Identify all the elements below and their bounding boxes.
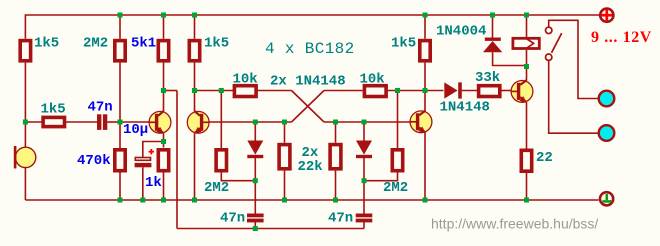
svg-text:2M2: 2M2 (383, 180, 408, 196)
wire 22kb top lead (335, 122, 337, 143)
node Q1 emitter junction (161, 139, 166, 144)
terminal plus (600, 9, 613, 22)
wire 10u top L (143, 142, 164, 158)
svg-text:10µ: 10µ (123, 122, 148, 138)
resistor 2M2 c (392, 150, 402, 171)
svg-text:1k5: 1k5 (204, 36, 229, 52)
diode D1 1N4148 down (247, 141, 263, 159)
wire 2M2b top lead (220, 91, 222, 149)
wire riser 2M2a (119, 15, 121, 39)
capacitor 47n a (97, 114, 107, 130)
resistor 22k b (330, 145, 341, 169)
wire 10u bottom (142, 167, 144, 200)
wire diagonal lower-left to upper-right (292, 91, 325, 123)
plus sign of 10u (149, 149, 154, 154)
wire 5k1 bottom (163, 63, 165, 91)
wire Q2 emitter (194, 133, 196, 200)
svg-text:5k1: 5k1 (131, 36, 156, 52)
wire 22kb bottom (335, 171, 337, 200)
resistor 5k1 (158, 41, 168, 61)
wire D1N4004 bottom lead (493, 52, 527, 65)
wire diagonal upper-left to lower-right (292, 91, 325, 123)
svg-text:9 ... 12V: 9 ... 12V (591, 29, 652, 46)
wire y90 to 10kb (324, 90, 363, 92)
wire Q3 collector (424, 91, 426, 111)
wire relay to Q4 collector (526, 50, 528, 81)
capacitor 47n b (247, 214, 264, 223)
wire rail2 (177, 228, 364, 230)
node relay-Q4 junction (524, 64, 529, 69)
wire Q4 emitter (526, 102, 528, 148)
node rail2 junction (253, 226, 258, 231)
svg-text:2x 1N4148: 2x 1N4148 (270, 74, 346, 90)
resistor 22 (521, 150, 531, 171)
node y180 junctions (253, 178, 258, 183)
wire Q2 base cross (198, 121, 292, 123)
resistor 1k (158, 150, 168, 171)
svg-text:33k: 33k (475, 70, 500, 86)
wire 470k bottom (119, 173, 121, 201)
diode 1N4004 up (483, 38, 502, 53)
wire C47nb bottom (254, 222, 256, 229)
node top rail junctions (118, 13, 123, 18)
transistor Q4 (511, 80, 533, 103)
wire 22 bottom (526, 173, 528, 200)
resistor 33k (479, 86, 500, 97)
node y122 junctions (23, 120, 28, 125)
resistor 2M2 a (115, 41, 125, 61)
wire D2 top lead (363, 122, 365, 141)
wire riser 1k5b (194, 15, 196, 39)
wire Q1 base (120, 121, 156, 123)
svg-text:1N4148: 1N4148 (440, 100, 490, 116)
wire y90 Q2C to 10ka (195, 90, 234, 92)
wire 1k5c bottom (424, 63, 426, 91)
wire riser relay (526, 15, 528, 37)
svg-text:1k5: 1k5 (34, 36, 59, 52)
node rail1 junctions (118, 198, 123, 203)
svg-text:47n: 47n (328, 211, 353, 227)
wire C47nc bottom (363, 222, 365, 229)
capacitor 47n c (356, 214, 373, 223)
wire Q1 collector (163, 91, 165, 113)
wire 22ka bottom (284, 171, 286, 200)
node y90 junctions (161, 88, 166, 93)
wire Q3 base cross (324, 121, 410, 123)
wire rail1 ground (25, 199, 598, 201)
wire riser 1N4004 (492, 15, 494, 38)
resistor 1k5 d horizontal (43, 117, 64, 126)
svg-text:10k: 10k (233, 72, 258, 88)
diode 1N4148 horizontal (444, 82, 462, 98)
microphone MIC (14, 146, 36, 169)
terminal out1 cyan (599, 91, 615, 107)
wire Q3 emitter (424, 133, 426, 201)
resistor 1k5 c (420, 41, 430, 61)
wire 33k to Q4 base (502, 90, 513, 92)
wire switch top to cyan1 (549, 20, 599, 98)
svg-text:10k: 10k (360, 72, 385, 88)
svg-text:22k: 22k (298, 159, 323, 175)
terminal out2 cyan (599, 125, 615, 141)
resistor 22k a (279, 145, 290, 169)
wire 1k5b bottom (194, 63, 196, 91)
relay coil K1 (513, 38, 539, 48)
svg-text:2M2: 2M2 (204, 180, 229, 196)
wire Q1 emitter (163, 133, 165, 147)
wire 2M2c top lead (397, 91, 399, 149)
switch contact S1 (546, 27, 562, 60)
wire top rail V+ (25, 15, 599, 39)
wire D1N4148 to 33k (462, 90, 478, 92)
resistor 470k (115, 150, 125, 171)
svg-text:470k: 470k (77, 153, 111, 169)
wire drop x177 (176, 91, 178, 229)
wire left column through mic (24, 63, 26, 200)
wire Q2 collector (194, 91, 196, 112)
resistor 2M2 b (216, 150, 226, 171)
svg-text:2M2: 2M2 (83, 36, 108, 52)
svg-text:1k: 1k (145, 175, 162, 191)
svg-text:1k5: 1k5 (41, 102, 66, 118)
transistor Q1 (149, 111, 171, 134)
wire D2 bottom to C47nc (363, 158, 365, 214)
resistor 1k5 b (189, 41, 199, 61)
wire D1 top lead (254, 122, 256, 141)
wire 1k5d left lead (25, 121, 41, 123)
wire D1 bottom to C47nb (254, 158, 256, 214)
transistor Q3 (410, 111, 432, 134)
wire node Q1C to drop (164, 90, 178, 92)
resistor 10k b (364, 86, 386, 97)
svg-text:http://www.freeweb.hu/bss/: http://www.freeweb.hu/bss/ (431, 216, 598, 232)
wire C47na to node (107, 121, 120, 123)
diode D2 1N4148 down (356, 141, 372, 159)
wire 1k5d to C47na (65, 121, 97, 123)
wire 2M2c bottom L (364, 173, 398, 181)
resistor 1k5 a (20, 41, 30, 61)
vertical resistors (20, 41, 532, 172)
wire riser 1k5c (424, 15, 426, 39)
wire 2M2b bottom L (221, 173, 255, 181)
capacitor 10u electrolytic (135, 158, 152, 168)
wire 10kb to D1N4148 (387, 90, 444, 92)
resistor 10k a (234, 86, 256, 97)
svg-text:47n: 47n (220, 211, 245, 227)
wire 22ka top lead (284, 122, 286, 143)
wire switch bottom to cyan2 (549, 60, 599, 133)
wire 10ka right (258, 90, 292, 92)
svg-text:4 x BC182: 4 x BC182 (265, 40, 355, 58)
svg-text:1N4004: 1N4004 (436, 24, 486, 40)
terminal ground (600, 192, 613, 205)
wire 2M2a bottom (119, 63, 121, 148)
wire 1k bottom (163, 173, 165, 201)
wire riser 5k1 (163, 15, 165, 39)
svg-text:47n: 47n (88, 100, 113, 116)
transistor Q2 mirrored (187, 111, 209, 134)
svg-text:1k5: 1k5 (391, 36, 416, 52)
svg-text:22: 22 (536, 150, 553, 166)
